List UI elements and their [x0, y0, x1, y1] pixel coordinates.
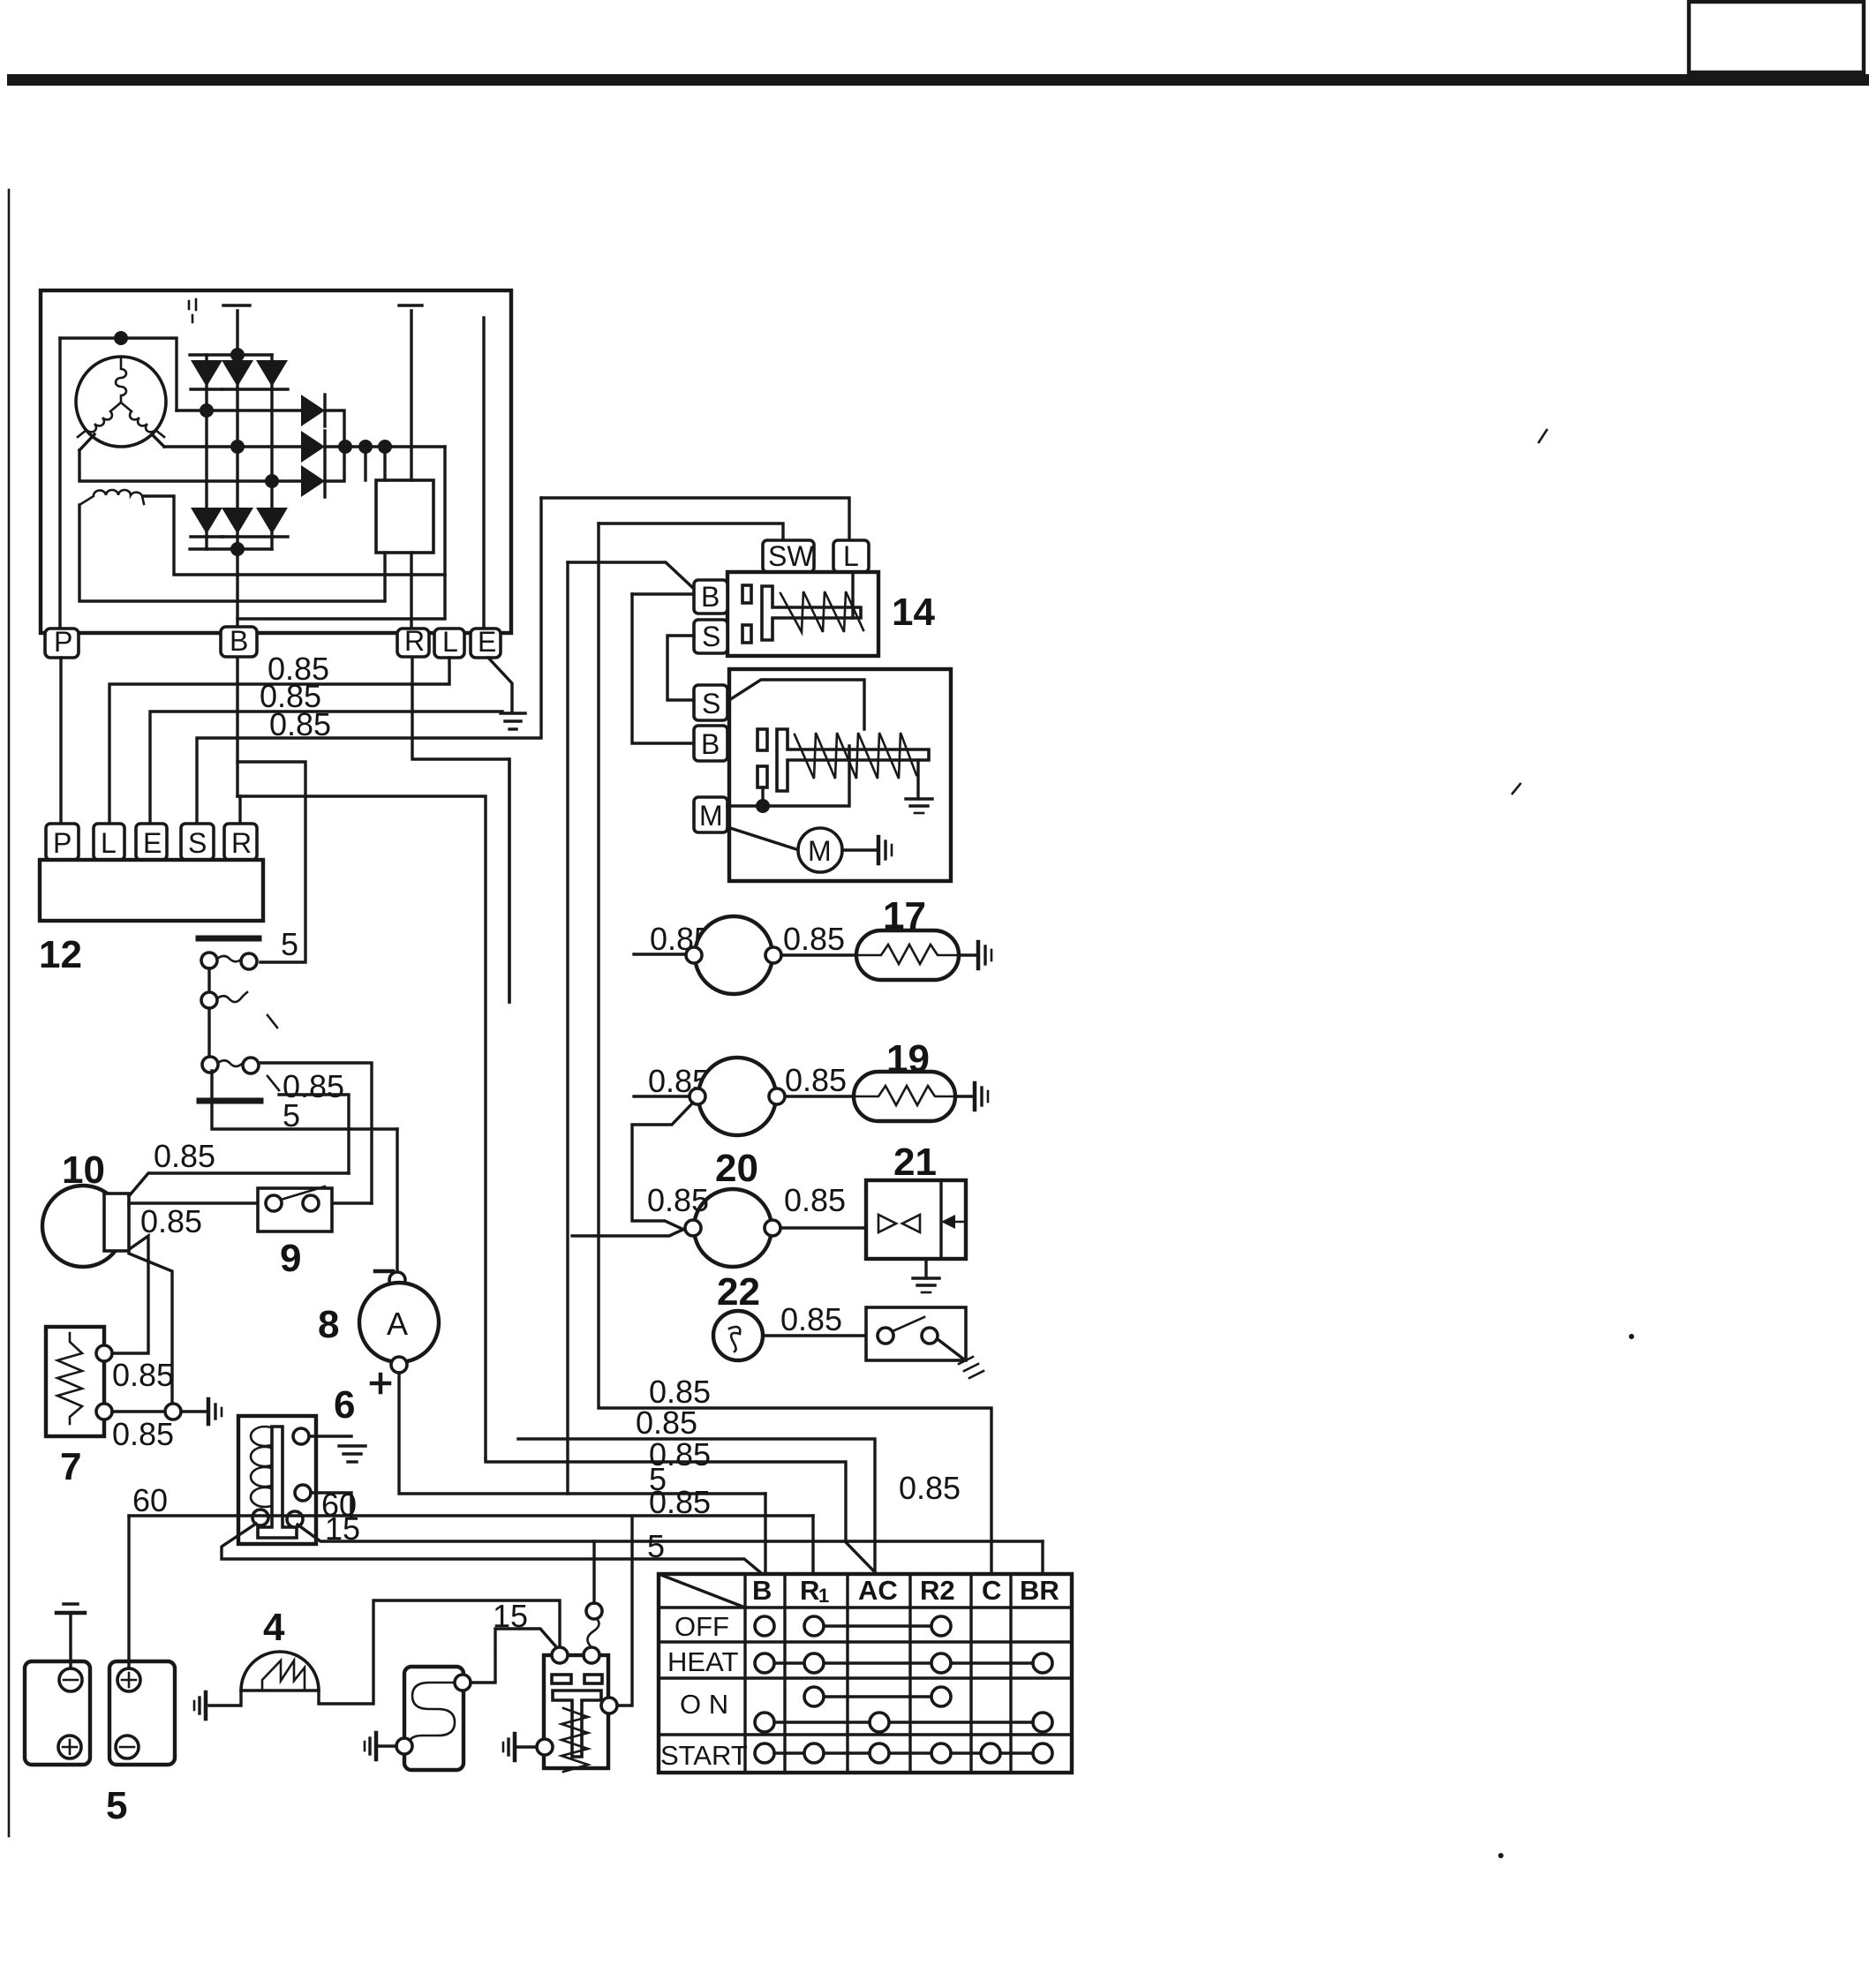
glow relay box	[544, 1655, 608, 1768]
svg-text:7: 7	[60, 1445, 81, 1488]
table contacts START	[755, 1743, 1052, 1763]
wire L terminal run	[109, 658, 449, 826]
wire 19 jog link	[632, 1103, 693, 1232]
lamp 17 element	[856, 945, 959, 964]
noise mark above bridge	[189, 299, 196, 322]
switch contact 2	[201, 992, 277, 1028]
wire junction to ground	[181, 1410, 207, 1412]
sender 19 body	[698, 1058, 776, 1135]
wire fuse right to 15 riser	[319, 1600, 560, 1704]
wire R dangling to AC	[518, 1439, 875, 1574]
svg-text:0.85: 0.85	[649, 1436, 711, 1472]
wire horn to ground drop	[129, 1254, 172, 1405]
node row3	[265, 474, 279, 488]
connector 12 body	[40, 860, 263, 921]
svg-text:R: R	[800, 1575, 819, 1606]
glow plug terminal right	[455, 1675, 471, 1691]
stator lead to row2	[152, 434, 164, 447]
wire L14 feed	[541, 498, 849, 540]
stator lead to row3	[79, 434, 94, 450]
glow relay armature bar	[553, 1691, 601, 1757]
svg-text:0.85: 0.85	[649, 1484, 711, 1520]
wire switch 9 to chain	[332, 1201, 372, 1204]
wire glow relay to ground	[517, 1745, 537, 1748]
svg-text:L: L	[101, 827, 117, 859]
wire B14 run down to table B	[566, 562, 569, 1494]
svg-text:5: 5	[106, 1784, 127, 1827]
svg-text:OFF: OFF	[674, 1611, 729, 1642]
wire motor to ground	[842, 848, 877, 851]
diode D6	[256, 481, 288, 549]
wire 20 lower feed	[572, 1226, 690, 1236]
tab B starter	[694, 726, 727, 761]
horn 10 bracket	[104, 1194, 129, 1251]
sender 20 terminal right	[765, 1220, 780, 1236]
svg-text:B: B	[752, 1575, 772, 1606]
diode D2	[222, 311, 253, 447]
svg-text:R: R	[404, 625, 425, 657]
wire switch1 link	[207, 968, 210, 992]
relay 6 terminal bottom-left	[252, 1510, 268, 1525]
wire relay6 mid to 60 bus	[311, 1493, 351, 1517]
wire battery plus riser	[127, 1516, 130, 1668]
glow relay terminal bottom-left	[537, 1739, 553, 1755]
svg-text:0.85: 0.85	[784, 1182, 846, 1218]
E internal lead	[482, 318, 485, 629]
switch bank bar 1	[199, 936, 259, 942]
relay 14 pin 2	[742, 625, 751, 643]
starter pin2 lead	[761, 787, 764, 806]
battery left plus terminal	[58, 1736, 81, 1758]
diode D1	[191, 355, 222, 410]
svg-text:L: L	[843, 540, 859, 572]
wire horn to switch 9	[129, 1201, 258, 1204]
svg-text:0.85: 0.85	[647, 1182, 709, 1218]
stray mark bottom right	[1498, 1853, 1503, 1858]
wire bottom bus to B terminal	[236, 549, 238, 629]
sender 17 terminal right	[765, 947, 781, 963]
wire 17 feed	[634, 953, 689, 955]
ground lamp 17	[978, 942, 991, 968]
svg-text:C: C	[982, 1575, 1001, 1606]
block 21 body	[866, 1180, 966, 1259]
wire table R1 riser	[811, 1516, 814, 1574]
rotor field coil	[79, 490, 144, 505]
node bottom bus	[230, 542, 245, 556]
wire SW feed	[599, 523, 783, 540]
stray mark right middle	[1512, 784, 1520, 794]
stray mark right lower	[1629, 1334, 1634, 1339]
rectifier top bus	[190, 353, 272, 356]
svg-text:0.85: 0.85	[269, 706, 331, 742]
wire lamp 19 to ground	[955, 1095, 973, 1097]
starter spring ground lead	[916, 760, 919, 799]
wire switch 22 chassis lead	[938, 1339, 964, 1359]
resistor 7 box	[46, 1327, 104, 1436]
svg-text:M: M	[808, 835, 832, 867]
sender 20 body	[694, 1189, 772, 1267]
voltage regulator block	[376, 480, 433, 553]
wire R connector pin drop	[238, 796, 241, 826]
wire relay6 coil to ground	[309, 1435, 351, 1437]
svg-text:5: 5	[647, 1528, 665, 1564]
svg-text:S: S	[188, 827, 207, 859]
wire P terminal to connector	[59, 658, 62, 826]
block 21 divider	[939, 1180, 942, 1259]
wire glow relay to starter riser	[617, 1517, 632, 1706]
diode D7	[301, 395, 325, 426]
wire switch bank to ammeter	[212, 1071, 397, 1129]
stator winding circle	[76, 357, 166, 447]
ground relay 6	[339, 1446, 366, 1462]
node row1	[200, 403, 214, 418]
glow relay terminal right	[601, 1698, 617, 1713]
glow relay terminal top-left	[552, 1647, 568, 1663]
output bus to regulator run	[325, 445, 445, 448]
tab S starter	[694, 685, 727, 720]
relay 6 box	[238, 1416, 316, 1544]
rectified output to B link	[237, 447, 445, 619]
svg-text:0.85: 0.85	[636, 1404, 697, 1441]
wire horn to resistor 7	[112, 1236, 148, 1353]
wire M to motor	[727, 827, 799, 850]
sender 17 terminal left	[686, 947, 702, 963]
starter armature	[777, 729, 929, 791]
sender 17 body	[695, 916, 772, 994]
svg-text:12: 12	[39, 933, 82, 976]
node M pin	[756, 799, 770, 813]
svg-text:P: P	[54, 626, 72, 658]
wire relay6 bottom-left to B	[222, 1524, 765, 1577]
connector 12 pin S	[181, 824, 214, 860]
wire glow plug to ground	[378, 1744, 396, 1747]
svg-text:B: B	[230, 625, 248, 657]
connector 12 pin L	[94, 824, 124, 860]
svg-text:B: B	[701, 728, 720, 760]
wire E terminal diagonal to ground	[488, 658, 512, 712]
table contacts OFF	[755, 1616, 951, 1636]
table row labels	[660, 1611, 748, 1771]
wire horn to lever tap	[129, 1173, 349, 1196]
svg-text:21: 21	[893, 1141, 937, 1184]
wire glow relay armature sense	[587, 1617, 599, 1647]
terminal B tab	[221, 625, 257, 657]
ground starter spring	[906, 799, 932, 813]
starter M internal wire	[727, 746, 849, 806]
block 21 diode pair	[878, 1215, 920, 1232]
svg-text:M: M	[699, 800, 723, 832]
wire B terminal drop	[236, 658, 238, 796]
minus tick above diode column 2	[223, 304, 250, 306]
battery right minus terminal	[116, 1736, 139, 1758]
R sense lead vertical	[410, 311, 412, 480]
ground block 21	[913, 1278, 939, 1292]
ammeter 8 body	[359, 1283, 439, 1362]
block 21 arrow	[941, 1215, 966, 1229]
wire 19 to lamp	[785, 1095, 854, 1097]
relay 6 terminal bottom-right	[287, 1511, 303, 1527]
table contacts ON-b	[755, 1713, 1052, 1732]
stator top junction wire	[60, 338, 177, 410]
regulator feed c	[383, 447, 386, 480]
battery cell left	[25, 1661, 90, 1765]
switch 22 contacts	[878, 1317, 938, 1344]
resistor 7 terminal bottom	[96, 1404, 112, 1419]
phase wire row 2	[164, 445, 301, 448]
svg-text:5: 5	[281, 926, 298, 962]
rectifier output bus vertical	[325, 410, 344, 481]
ground glow relay	[503, 1734, 515, 1760]
ammeter terminal bottom	[391, 1357, 407, 1373]
sender 20 terminal left	[685, 1220, 701, 1236]
lamp 19 body	[854, 1072, 955, 1121]
relay 14 L internal lead	[851, 572, 854, 618]
terminal E tab	[471, 626, 501, 658]
plus sign ammeter	[372, 1374, 389, 1392]
relay 14 box	[727, 572, 878, 656]
relay 6 coil	[251, 1427, 279, 1507]
node output b	[358, 440, 373, 454]
wire E circuit run	[150, 712, 502, 826]
tab S relay14	[694, 620, 727, 653]
switch 9 contacts	[266, 1186, 325, 1211]
wire 60 bus battery to R1	[129, 1514, 813, 1517]
regulator field return lead	[79, 505, 385, 601]
wire 17 to lamp	[781, 953, 856, 956]
alternator inner-left lead	[58, 338, 61, 633]
svg-text:R: R	[231, 827, 252, 859]
svg-text:O N: O N	[680, 1689, 728, 1720]
starter S internal wire	[729, 680, 864, 729]
starter spring	[795, 733, 916, 779]
terminal R tab	[397, 625, 429, 657]
wire glow plug to 15 node	[471, 1629, 559, 1683]
svg-text:0.85: 0.85	[112, 1416, 174, 1452]
svg-text:0.85: 0.85	[783, 921, 845, 957]
regulator to R terminal lead	[410, 553, 412, 629]
switch contact 1	[201, 953, 257, 969]
wire R terminal run	[412, 658, 509, 1002]
ignition switch 1 table frame	[659, 1574, 1072, 1773]
svg-text:HEAT: HEAT	[667, 1646, 738, 1677]
svg-text:8: 8	[318, 1303, 339, 1346]
wire S14 to S starter	[667, 636, 694, 700]
wire SW run down to C	[599, 523, 991, 1574]
svg-text:BR: BR	[1020, 1575, 1059, 1606]
glow relay spring	[561, 1708, 588, 1772]
svg-text:0.85: 0.85	[780, 1301, 842, 1337]
wire B14 feed upper	[568, 562, 694, 589]
phase wire row 3	[79, 450, 301, 481]
regulator feed b	[364, 447, 366, 480]
lamp 22 body	[713, 1311, 763, 1360]
svg-text:60: 60	[132, 1482, 168, 1518]
resistor 7 element	[57, 1333, 82, 1424]
svg-text:E: E	[478, 626, 496, 658]
switch contact 3	[202, 1057, 279, 1090]
svg-text:20: 20	[715, 1147, 758, 1190]
relay 14 spring	[780, 591, 863, 632]
wire B long run to AC	[237, 796, 486, 1458]
diode D5	[222, 447, 253, 549]
glow relay sense terminal	[586, 1603, 602, 1619]
tab L	[833, 540, 869, 572]
ground E circuit	[501, 713, 525, 729]
wire resistor 7 to ground junction	[112, 1410, 165, 1412]
svg-text:P: P	[53, 827, 72, 859]
lamp 17 body	[856, 930, 959, 980]
wire B starter feed	[632, 594, 694, 743]
switch 22 box	[866, 1307, 966, 1360]
ground starter motor	[878, 837, 892, 863]
tab B relay14	[694, 580, 727, 614]
wire battery minus to chassis	[69, 1613, 72, 1668]
battery right plus terminal	[117, 1668, 140, 1691]
lamp 22 filament	[729, 1327, 740, 1352]
fuse 4 dome	[241, 1652, 319, 1691]
diode D4	[191, 410, 222, 549]
sender 19 terminal left	[690, 1088, 705, 1104]
relay 6 terminal coil-top	[293, 1428, 309, 1444]
svg-text:A: A	[387, 1306, 408, 1342]
switch 9 box	[258, 1188, 332, 1231]
svg-text:SW: SW	[768, 540, 814, 572]
switch bank bar 2	[200, 1098, 260, 1104]
wire B to lighting switch feed	[237, 762, 305, 962]
connector 12 pin R	[224, 824, 257, 860]
starter pin 2	[757, 766, 767, 787]
horn 10 body	[42, 1186, 124, 1267]
ground glow plug	[365, 1733, 376, 1759]
node output c	[378, 440, 392, 454]
glow plug terminal left	[396, 1738, 412, 1754]
minus tick above R sense lead	[399, 304, 422, 306]
wire switch2 link	[207, 1008, 210, 1057]
fuse 4 element	[262, 1660, 305, 1691]
svg-text:0.85: 0.85	[112, 1357, 174, 1393]
svg-text:22: 22	[717, 1270, 760, 1314]
ammeter terminal top	[389, 1272, 405, 1288]
tab SW	[763, 540, 814, 572]
chassis mark battery	[57, 1604, 85, 1613]
battery left minus terminal	[59, 1668, 82, 1691]
node ground junction	[165, 1404, 181, 1419]
svg-text:0.85: 0.85	[785, 1062, 847, 1098]
wire block 21 to ground	[924, 1259, 927, 1278]
node top bus center	[230, 348, 245, 362]
svg-text:6: 6	[334, 1383, 355, 1427]
svg-text:L: L	[442, 626, 458, 658]
ground lamp 19	[975, 1083, 988, 1110]
terminal L tab	[434, 626, 464, 658]
table header labels	[752, 1575, 1059, 1607]
svg-text:0.85: 0.85	[899, 1470, 961, 1506]
node stator top	[114, 331, 128, 345]
diode D9	[301, 465, 325, 497]
svg-text:4: 4	[263, 1606, 285, 1649]
relay 6 armature	[258, 1427, 297, 1538]
chassis hatch 22	[959, 1357, 983, 1378]
stator Y-winding squiggles	[116, 358, 126, 403]
page left margin line	[8, 190, 11, 1836]
svg-text:AC: AC	[858, 1575, 898, 1606]
battery cell right	[109, 1661, 175, 1765]
wire ammeter to table B	[399, 1373, 765, 1494]
rotor coil output lead	[144, 496, 445, 575]
node row2	[230, 440, 245, 454]
svg-text:START: START	[660, 1740, 748, 1771]
svg-text:R2: R2	[920, 1575, 955, 1606]
wire switch lever tap	[279, 1095, 349, 1173]
glow plug element	[409, 1683, 456, 1745]
rectifier bottom bus	[190, 547, 272, 550]
page top rule bar	[7, 74, 1869, 86]
lamp 19 element	[854, 1086, 955, 1105]
alternator 11 outer case	[41, 290, 511, 633]
diode D3	[256, 355, 288, 481]
svg-text:5: 5	[283, 1097, 300, 1133]
wire sense to 15 bus	[592, 1541, 595, 1603]
terminal P tab	[45, 626, 79, 658]
minus sign ammeter	[375, 1269, 393, 1274]
svg-text:1: 1	[818, 1585, 829, 1607]
svg-text:15: 15	[325, 1510, 360, 1547]
connector 12 pin P	[46, 824, 79, 860]
wire B run to AC	[486, 1458, 875, 1572]
wire B14 feed lower	[632, 592, 694, 595]
phase wire row 1	[177, 409, 301, 411]
svg-text:E: E	[143, 827, 162, 859]
wire table B riser	[764, 1494, 766, 1574]
wire 20 to block 21	[780, 1226, 866, 1229]
svg-text:9: 9	[280, 1237, 301, 1280]
stray mark top right	[1539, 430, 1547, 442]
glow relay terminal top-right	[584, 1647, 599, 1663]
svg-text:S: S	[702, 621, 720, 652]
glow relay contact pad right	[584, 1675, 602, 1683]
glow relay contact pad left	[552, 1675, 571, 1683]
relay 6 terminal mid	[295, 1485, 311, 1501]
wire lamp 17 to ground	[959, 953, 976, 956]
svg-text:S: S	[702, 688, 720, 719]
wire switch3 to relay9 feed	[259, 1063, 372, 1203]
table contacts ON-a	[804, 1687, 951, 1706]
table contacts HEAT	[755, 1653, 1052, 1673]
sender 19 terminal right	[769, 1088, 785, 1104]
diode D8	[301, 431, 325, 463]
wire chain to ammeter minus	[396, 1129, 398, 1275]
connector 12 pin E	[136, 824, 167, 860]
wire R sender dangling run	[508, 759, 510, 1002]
resistor 7 terminal top	[96, 1345, 112, 1361]
ground fuse 4	[194, 1692, 206, 1719]
node output a	[338, 440, 352, 454]
relay 14 pin 1	[742, 585, 751, 603]
relay 14 armature	[762, 586, 861, 640]
wire relay6 15 run to BR	[298, 1525, 1043, 1541]
ground horn circuit	[208, 1399, 222, 1424]
wire table BR riser	[1041, 1541, 1044, 1574]
svg-text:0.85: 0.85	[154, 1138, 215, 1174]
page corner box top right	[1689, 2, 1864, 72]
tab M starter	[694, 797, 727, 832]
starter motor M	[798, 828, 842, 872]
starter pin 1	[757, 729, 767, 750]
wire 19 feed	[634, 1095, 689, 1097]
wire fuse left to ground	[209, 1691, 241, 1706]
starter unit box	[729, 669, 951, 881]
glow plug body	[404, 1667, 463, 1770]
